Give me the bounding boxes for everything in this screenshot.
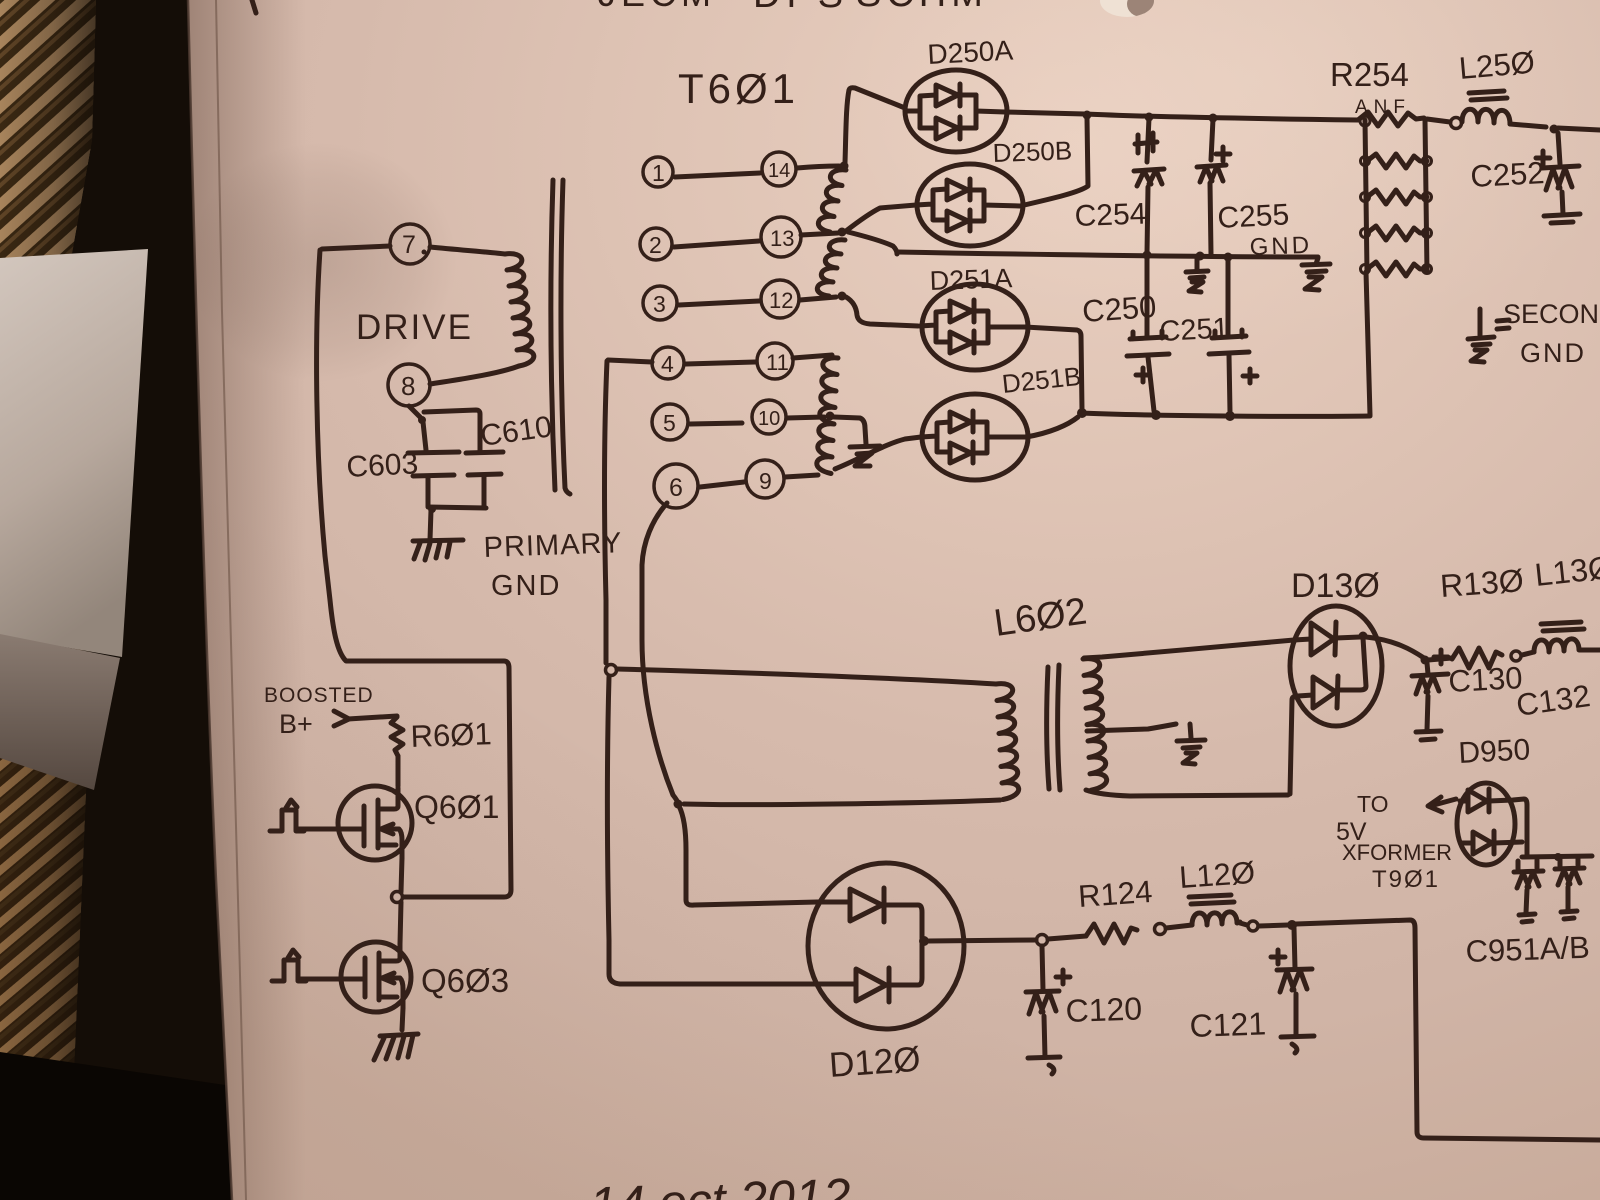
- svg-text:D13Ø: D13Ø: [1291, 567, 1380, 605]
- svg-text:C254: C254: [1074, 198, 1147, 233]
- svg-text:4: 4: [661, 351, 674, 377]
- svg-text:3: 3: [653, 291, 666, 317]
- svg-text:C250: C250: [1081, 289, 1157, 329]
- svg-text:7: 7: [402, 231, 416, 259]
- svg-text:C120: C120: [1065, 990, 1143, 1029]
- svg-text:B+: B+: [279, 709, 313, 739]
- svg-text:Q6Ø3: Q6Ø3: [421, 962, 509, 999]
- svg-text:XFORMER: XFORMER: [1342, 840, 1452, 865]
- svg-text:6: 6: [669, 474, 683, 502]
- svg-text:D12Ø: D12Ø: [828, 1040, 922, 1085]
- svg-text:C255: C255: [1217, 198, 1290, 235]
- svg-text:Q6Ø1: Q6Ø1: [414, 789, 499, 825]
- svg-text:C951A/B: C951A/B: [1465, 930, 1590, 969]
- svg-text:C121: C121: [1189, 1005, 1267, 1044]
- svg-text:DRIVE: DRIVE: [356, 308, 473, 347]
- svg-text:TO: TO: [1357, 791, 1389, 817]
- svg-text:L12Ø: L12Ø: [1178, 855, 1256, 895]
- svg-text:2: 2: [649, 232, 662, 258]
- svg-text:9: 9: [759, 468, 772, 494]
- svg-text:D250A: D250A: [927, 35, 1014, 70]
- svg-text:PRIMARY: PRIMARY: [483, 527, 623, 564]
- svg-text:ANF: ANF: [1355, 97, 1411, 118]
- svg-text:GND: GND: [1520, 338, 1586, 368]
- svg-text:5: 5: [663, 410, 676, 436]
- svg-text:8: 8: [401, 371, 415, 401]
- svg-text:11: 11: [766, 350, 789, 375]
- svg-text:JECM: JECM: [598, 0, 716, 14]
- svg-text:SECONDARY: SECONDARY: [1503, 299, 1600, 329]
- svg-text:L13Ø: L13Ø: [1533, 549, 1600, 593]
- svg-text:1: 1: [652, 160, 665, 186]
- svg-text:R6Ø1: R6Ø1: [410, 716, 492, 754]
- svg-text:10: 10: [758, 408, 780, 430]
- svg-text:R13Ø: R13Ø: [1439, 562, 1525, 604]
- svg-text:14: 14: [768, 160, 790, 182]
- svg-text:D251A: D251A: [929, 263, 1013, 296]
- svg-text:BOOSTED: BOOSTED: [264, 684, 374, 707]
- svg-text:D250B: D250B: [992, 135, 1072, 168]
- svg-text:C130: C130: [1448, 660, 1524, 699]
- svg-text:D950: D950: [1458, 733, 1531, 770]
- svg-text:C252: C252: [1470, 155, 1546, 194]
- svg-text:12: 12: [769, 288, 793, 313]
- svg-text:C251: C251: [1159, 312, 1230, 348]
- svg-text:C603: C603: [346, 447, 419, 484]
- svg-text:GND: GND: [1249, 232, 1312, 261]
- svg-text:R254: R254: [1330, 56, 1409, 93]
- svg-text:T9Ø1: T9Ø1: [1372, 866, 1440, 893]
- svg-text:13: 13: [770, 226, 794, 251]
- svg-text:DPS: DPS: [753, 0, 849, 16]
- svg-text:L25Ø: L25Ø: [1458, 44, 1537, 85]
- svg-text:R124: R124: [1077, 874, 1153, 914]
- svg-text:SCHM: SCHM: [856, 0, 988, 15]
- svg-text:GND: GND: [491, 570, 561, 602]
- svg-text:T6Ø1: T6Ø1: [678, 65, 799, 112]
